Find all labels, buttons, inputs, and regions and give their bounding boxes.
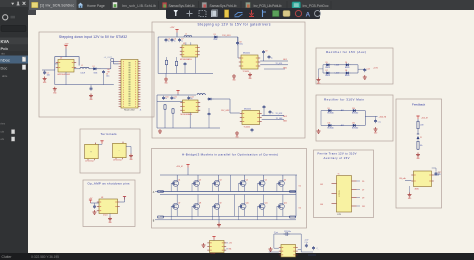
svg-text:C3: C3 bbox=[106, 73, 108, 75]
wire driver2 out2 bbox=[262, 119, 284, 121]
wire top cap rail bottom subckt bbox=[157, 94, 196, 96]
diode D1 bbox=[92, 68, 94, 70]
svg-text:MBRS: MBRS bbox=[345, 75, 350, 77]
wire fb opamp right bbox=[434, 174, 439, 176]
svg-text:Driver: Driver bbox=[103, 215, 108, 217]
op amp U8 bbox=[99, 199, 118, 214]
ground feedback opamp bbox=[409, 193, 411, 195]
toolbar icon move bbox=[187, 11, 193, 17]
wire power to terminal1 bbox=[97, 143, 102, 145]
wire driver out3 bbox=[264, 68, 285, 70]
mosfet Q1 bbox=[173, 180, 179, 186]
ground rect2 bbox=[375, 127, 377, 129]
wire terminal2 gnd bbox=[126, 146, 131, 148]
svg-text:Q11: Q11 bbox=[265, 203, 268, 205]
H-bridge right gate bus top bbox=[240, 191, 296, 193]
ground mid bbox=[90, 94, 92, 96]
svg-text:C22 100n: C22 100n bbox=[284, 231, 291, 233]
wire 12V feed top bbox=[176, 33, 178, 38]
inductor L1 bbox=[80, 67, 89, 69]
svg-text:-: - bbox=[119, 150, 120, 153]
svg-text:TC4420: TC4420 bbox=[244, 127, 250, 129]
projects panel background bbox=[0, 0, 28, 253]
driver IC U9 bottom left bbox=[210, 241, 225, 253]
wire opamp out bbox=[120, 201, 125, 203]
switcher U5 bbox=[183, 100, 199, 113]
svg-text:1u: 1u bbox=[174, 40, 176, 42]
ground terminals bbox=[130, 154, 132, 156]
ground opamp2 bbox=[109, 217, 111, 219]
wire left drop bbox=[273, 234, 275, 248]
svg-text:Doc: Doc bbox=[1, 67, 8, 71]
svg-text:els: els bbox=[1, 137, 5, 141]
svg-text:MBRS: MBRS bbox=[325, 75, 330, 77]
mosfet Q7 bbox=[173, 203, 179, 209]
ground rail left bbox=[54, 87, 56, 89]
svg-text:Driver: Driver bbox=[211, 253, 216, 255]
resistor R_fb2 bbox=[417, 141, 419, 149]
tab bar end separator bbox=[330, 1, 332, 9]
toolbar icon probe blue bbox=[263, 10, 267, 17]
svg-text:Stepping down input 12V to 5V: Stepping down input 12V to 5V for STM32 bbox=[59, 35, 127, 39]
svg-text:J1: J1 bbox=[140, 110, 142, 112]
power port feedback top bbox=[416, 115, 419, 117]
wire fb opamp left bbox=[405, 180, 411, 182]
mosfet Q5 bbox=[259, 180, 265, 186]
power port above U9 bbox=[212, 236, 215, 238]
wire gates bottom row bbox=[170, 206, 172, 220]
svg-text:D10: D10 bbox=[352, 108, 355, 110]
toolbar icon circle gray bbox=[315, 11, 321, 17]
wire bottom rail top subckt bbox=[158, 72, 213, 74]
ground bottom subckt bbox=[159, 129, 161, 131]
capacitor C12 bbox=[188, 96, 190, 98]
svg-text:KVA: KVA bbox=[1, 39, 10, 44]
wire regulator out bbox=[74, 68, 80, 70]
bottom rail box1 bbox=[55, 84, 114, 86]
svg-text:D1: D1 bbox=[93, 66, 95, 68]
mosfet Q11 bbox=[259, 203, 265, 209]
wire after diode bbox=[221, 36, 238, 38]
wire caps bottom rail 2 bbox=[157, 101, 196, 103]
capacitor rect1 out bbox=[358, 68, 365, 70]
wire into driver bbox=[237, 37, 239, 58]
ground right top bbox=[249, 73, 251, 75]
tab Inv_PCB.PcbDoc bbox=[286, 1, 288, 9]
svg-text:MC34063ADG: MC34063ADG bbox=[181, 113, 193, 116]
svg-text:C9: C9 bbox=[265, 51, 267, 53]
diode D11 bbox=[327, 124, 329, 126]
capacitor C11 bbox=[171, 96, 173, 98]
svg-text:+310_M: +310_M bbox=[176, 166, 183, 168]
capacitor above U10 a bbox=[284, 232, 290, 236]
mosfet Q3 bbox=[214, 180, 220, 186]
capacitor opamp input bbox=[94, 205, 96, 207]
svg-text:TO_GD2: TO_GD2 bbox=[276, 113, 283, 115]
capacitor fb right bbox=[435, 172, 437, 174]
svg-text:L2: L2 bbox=[185, 34, 187, 36]
toolbar icon wire blue bbox=[235, 13, 243, 17]
svg-text:MIC4420: MIC4420 bbox=[244, 108, 251, 110]
svg-text:Q6: Q6 bbox=[284, 180, 286, 182]
regulator U2 LM2576 bbox=[58, 60, 74, 73]
gate resistor top left bbox=[158, 191, 163, 193]
section box H-bridge bbox=[152, 149, 307, 229]
svg-text:Q1: Q1 bbox=[178, 180, 180, 182]
toolbar icon tan sheet entry bbox=[283, 11, 290, 17]
wire U9 right bbox=[226, 242, 228, 244]
svg-text:RE: RE bbox=[108, 72, 110, 74]
svg-text:D6: D6 bbox=[345, 62, 347, 64]
power port +12V input bbox=[64, 45, 67, 47]
svg-text:FB_mA: FB_mA bbox=[400, 177, 407, 180]
resistor divider left bbox=[165, 60, 167, 64]
svg-text:D7: D7 bbox=[362, 190, 364, 192]
svg-text:SS34: SS34 bbox=[213, 39, 217, 41]
panel search box bbox=[1, 26, 26, 32]
svg-text:Inv_PCB_LIb.PcbLib: Inv_PCB_LIb.PcbLib bbox=[254, 4, 282, 8]
capacitor C1 input bbox=[44, 71, 46, 73]
wire out cap down bbox=[103, 74, 105, 84]
svg-text:+310_M: +310_M bbox=[379, 117, 387, 119]
svg-text:4N35: 4N35 bbox=[415, 188, 419, 190]
capacitor mid bottom subckt bbox=[208, 112, 210, 114]
switcher U3 bbox=[182, 45, 198, 57]
capacitor rect2 out bbox=[375, 119, 377, 121]
diode D10 bbox=[352, 110, 354, 112]
wire to diode bbox=[207, 36, 214, 38]
wire gates top row bbox=[170, 183, 172, 191]
transformer pins left bbox=[332, 183, 337, 185]
svg-text:able: able bbox=[2, 74, 8, 78]
svg-text:U2: U2 bbox=[60, 58, 62, 60]
svg-text:J3 Terminal: J3 Terminal bbox=[113, 158, 122, 161]
ground left of U10 bbox=[270, 247, 272, 249]
svg-text:SamacSys.PcbLib: SamacSys.PcbLib bbox=[210, 4, 237, 8]
wire bottom rail 2 bbox=[157, 127, 220, 129]
svg-text:Q8: Q8 bbox=[199, 203, 201, 205]
svg-text:+310_M: +310_M bbox=[421, 117, 428, 119]
svg-text:Rectifier for 15V (Aux): Rectifier for 15V (Aux) bbox=[326, 50, 366, 54]
toolbar icon selection rect bbox=[199, 11, 206, 17]
wire regulator left pin bbox=[55, 63, 58, 65]
svg-text:1u: 1u bbox=[168, 40, 170, 42]
status bar bbox=[0, 253, 474, 260]
svg-text:nts: nts bbox=[1, 51, 5, 55]
floating active toolbar bbox=[166, 8, 320, 19]
svg-text:hDoc: hDoc bbox=[1, 58, 10, 63]
capacitor C8 output top bbox=[237, 41, 239, 43]
toolbar icon yellow part bbox=[225, 10, 229, 18]
capacitor C10 bbox=[163, 96, 165, 98]
gate resistor bottom left bbox=[158, 216, 163, 218]
svg-text:cts: cts bbox=[1, 130, 5, 134]
power port opamp bbox=[89, 199, 92, 201]
wire driver out bbox=[260, 60, 288, 62]
svg-text:D9: D9 bbox=[362, 198, 364, 200]
svg-text:C11: C11 bbox=[174, 96, 177, 98]
H-bridge right gate bus bottom bbox=[240, 219, 296, 221]
active tab Inv_SCN.SchDoc bbox=[29, 0, 77, 10]
svg-text:U8: U8 bbox=[101, 197, 103, 199]
svg-text:Inv_PCB.PcbDoc: Inv_PCB.PcbDoc bbox=[303, 4, 329, 8]
H-bridge mid rail left bbox=[160, 191, 296, 193]
wire sources bottom row bbox=[176, 209, 178, 216]
wire drains top row bbox=[176, 175, 178, 181]
svg-text:+15V: +15V bbox=[373, 68, 379, 70]
diode zener fb bbox=[417, 133, 419, 135]
svg-text:10k: 10k bbox=[420, 145, 423, 147]
svg-text:Q10: Q10 bbox=[246, 203, 249, 205]
toolbar icon cursor bbox=[174, 10, 179, 16]
svg-text:Inv_sch_LIB.SchLib: Inv_sch_LIB.SchLib bbox=[122, 4, 156, 8]
svg-text:1u: 1u bbox=[174, 98, 176, 100]
power port opamp out bbox=[123, 196, 126, 198]
diode D8 bbox=[345, 72, 347, 74]
svg-text:[1] Inv_SCN.SchDoc: [1] Inv_SCN.SchDoc bbox=[40, 4, 74, 8]
svg-text:Q7: Q7 bbox=[178, 203, 180, 205]
svg-text:Q4: Q4 bbox=[246, 180, 248, 182]
wire sources top row bbox=[176, 186, 178, 191]
capacitor C7 bbox=[179, 38, 181, 40]
section box feedback bbox=[396, 99, 442, 208]
tab SamacSys.PcbLib bbox=[198, 1, 200, 9]
mosfet Q6 bbox=[278, 180, 284, 186]
svg-text:1u: 1u bbox=[271, 57, 273, 59]
wire switch to driver 2 bbox=[214, 98, 230, 100]
wire drains bottom row bbox=[176, 195, 178, 204]
svg-text:SamacSys.SchLib: SamacSys.SchLib bbox=[169, 4, 195, 8]
wire res to ic bbox=[166, 57, 168, 60]
svg-text:D5: D5 bbox=[362, 181, 364, 183]
wire to out cap bbox=[101, 68, 111, 70]
H-bridge top rail bbox=[160, 174, 297, 176]
svg-text:O2: O2 bbox=[299, 207, 302, 209]
tab Inv_PCB_Lib.PcbLib bbox=[240, 1, 242, 9]
section box terminals bbox=[80, 129, 140, 173]
resistor R_fb1 bbox=[417, 121, 419, 128]
inductor L3 bbox=[197, 94, 205, 95]
connector center net names bbox=[129, 62, 131, 106]
ground input cap bbox=[44, 77, 46, 79]
svg-text:TC4420: TC4420 bbox=[243, 71, 249, 73]
mosfet Q9 bbox=[214, 203, 220, 209]
terminal J2 bottom stubs bbox=[87, 159, 89, 161]
svg-text:Stepping up 12V to 15V for gat: Stepping up 12V to 15V for gatedrivers bbox=[198, 23, 271, 27]
section box rectifier 15V aux bbox=[316, 48, 393, 84]
svg-text:C 1u: C 1u bbox=[378, 122, 381, 124]
diode D5 bbox=[325, 64, 327, 66]
wire left bus bottom subckt bbox=[156, 95, 158, 128]
svg-text:GB2: GB2 bbox=[283, 121, 287, 123]
svg-text:C12: C12 bbox=[191, 96, 194, 98]
wire top cap rail bbox=[158, 36, 206, 38]
gate resistor bottom right bbox=[290, 216, 295, 218]
svg-text:ETD39: ETD39 bbox=[339, 189, 341, 196]
svg-text:C_: C_ bbox=[317, 248, 319, 250]
wire driver2 out bbox=[262, 114, 284, 116]
wire center drop bottom bbox=[234, 195, 236, 217]
tab Inv_sch_LIB.SchLib bbox=[110, 1, 112, 9]
wire right column bbox=[295, 175, 297, 216]
ground rect1 left bbox=[318, 78, 320, 80]
mosfet Q2 bbox=[193, 180, 199, 186]
wire opamp in bbox=[91, 202, 100, 204]
small cluster bottom right caps bbox=[313, 246, 315, 248]
svg-text:O1: O1 bbox=[299, 185, 302, 187]
wire rect2 row2 bbox=[321, 124, 327, 126]
gate driver U4 bbox=[241, 55, 258, 69]
diode D4 bbox=[207, 98, 209, 100]
svg-text:Q9: Q9 bbox=[219, 203, 221, 205]
svg-text:1u: 1u bbox=[272, 112, 274, 114]
svg-text:SS36: SS36 bbox=[94, 73, 98, 75]
svg-text:GD1: GD1 bbox=[283, 59, 287, 61]
svg-text:C1: C1 bbox=[47, 73, 49, 75]
document tab bar bbox=[28, 0, 474, 10]
ground driver top bbox=[233, 74, 235, 76]
toolbar icon power port red bbox=[249, 10, 254, 17]
diode D7 bbox=[325, 72, 327, 74]
toolbar icon sheet bbox=[211, 11, 217, 18]
svg-text:D12: D12 bbox=[352, 123, 355, 125]
H-bridge mid rail 2 bbox=[160, 194, 296, 196]
svg-text:Terminals: Terminals bbox=[101, 132, 118, 136]
wire U10 right bbox=[298, 249, 302, 251]
svg-text:D8: D8 bbox=[345, 70, 347, 72]
wire to label bbox=[365, 67, 372, 69]
wire input cap branch bbox=[42, 69, 55, 71]
capacitor under driver2 bbox=[251, 128, 253, 130]
svg-text:GD2: GD2 bbox=[283, 116, 287, 118]
section box rectifier 310V main bbox=[316, 95, 393, 141]
svg-text:D9: D9 bbox=[328, 108, 330, 110]
svg-text:A: A bbox=[306, 11, 311, 18]
section box stepping up 12V to 15V bbox=[152, 22, 305, 138]
svg-text:Header 20X2: Header 20X2 bbox=[124, 110, 135, 112]
svg-text:U3: U3 bbox=[183, 43, 185, 45]
capacitor byp3 bbox=[263, 105, 265, 107]
capacitor C5 bbox=[165, 38, 167, 40]
svg-text:+12V: +12V bbox=[64, 44, 69, 46]
connector J1 STM32 header bbox=[121, 60, 138, 109]
svg-text:MUR460: MUR460 bbox=[352, 113, 358, 115]
ground left of U9 bbox=[203, 243, 205, 245]
wire rect1 row2 bbox=[323, 72, 325, 74]
svg-text:Feedback: Feedback bbox=[412, 102, 426, 106]
svg-text:MUR460: MUR460 bbox=[327, 128, 333, 130]
svg-text:J06: J06 bbox=[320, 204, 323, 206]
project tree row Inv.PrjPcb bbox=[0, 38, 28, 45]
svg-text:100u: 100u bbox=[106, 75, 110, 77]
wire fb node bbox=[417, 130, 419, 135]
svg-text:Auxiliary of 15V: Auxiliary of 15V bbox=[324, 156, 350, 160]
svg-text:X:322.580 Y:36.195: X:322.580 Y:36.195 bbox=[31, 255, 59, 259]
wire rect1 row1 bbox=[323, 64, 325, 66]
svg-text:Clutter: Clutter bbox=[2, 255, 13, 259]
diode D9 bbox=[327, 110, 329, 112]
svg-text:T1: T1 bbox=[338, 174, 340, 176]
ground rect1 bbox=[364, 75, 366, 77]
power port H-bridge bbox=[186, 164, 189, 166]
svg-text:C8: C8 bbox=[239, 42, 241, 44]
capacitor driver byp2 bbox=[268, 55, 270, 57]
inductor L2 bbox=[184, 35, 192, 36]
tab shadow notch bbox=[28, 10, 36, 15]
svg-text:D7: D7 bbox=[326, 70, 328, 72]
svg-text:GB1: GB1 bbox=[283, 68, 287, 70]
power port 12V top subckt bbox=[175, 29, 178, 31]
svg-text:Q5: Q5 bbox=[265, 180, 267, 182]
svg-text:C10: C10 bbox=[165, 96, 168, 98]
svg-text:100uH: 100uH bbox=[81, 73, 85, 75]
svg-text:H-Bridge(3 Mosfets in parallel: H-Bridge(3 Mosfets in parallel for Optim… bbox=[182, 153, 278, 157]
capacitor C4 mid bbox=[90, 85, 92, 87]
svg-text:+12V: +12V bbox=[170, 27, 175, 29]
svg-text:D11: D11 bbox=[328, 123, 331, 125]
ground opamp input bbox=[94, 210, 96, 212]
svg-text:C7: C7 bbox=[181, 39, 183, 41]
wire right drop bbox=[300, 234, 302, 252]
svg-text:MUR460: MUR460 bbox=[352, 128, 358, 130]
svg-text:1u: 1u bbox=[165, 98, 167, 100]
wire IC top drops bbox=[185, 42, 187, 45]
svg-text:+5_OUT: +5_OUT bbox=[104, 57, 113, 59]
mosfet Q12 bbox=[278, 203, 284, 209]
toolbar icon green sheet symbol bbox=[273, 11, 280, 17]
panel header buttons bbox=[11, 2, 25, 6]
svg-text:D11: D11 bbox=[362, 206, 365, 208]
wire after inductor bbox=[89, 68, 92, 70]
wire 5V up to header bbox=[103, 65, 105, 69]
H-bridge left gate bus A bbox=[155, 191, 240, 193]
mosfet Q4 bbox=[240, 180, 246, 186]
wire gnd stub bbox=[165, 73, 167, 77]
svg-text:15V_GD2: 15V_GD2 bbox=[221, 110, 229, 112]
svg-text:L1: L1 bbox=[81, 65, 83, 67]
svg-text:Rectifier for 310V Main: Rectifier for 310V Main bbox=[324, 98, 364, 102]
connector pin numbers red columns bbox=[122, 61, 124, 107]
section box stepping down 12V to 5V bbox=[39, 32, 154, 117]
svg-text:MBRS: MBRS bbox=[345, 67, 350, 69]
svg-text:100u: 100u bbox=[239, 43, 243, 45]
capacitor C3 output bbox=[103, 70, 105, 72]
capacitor byp4 bbox=[269, 110, 271, 112]
wire rect1 left stub bbox=[318, 69, 320, 78]
power port terminals bbox=[100, 140, 103, 142]
mosfet Q10 bbox=[240, 203, 246, 209]
wire fb chain bbox=[417, 119, 419, 122]
svg-text:J2 Terminal: J2 Terminal bbox=[85, 159, 94, 162]
svg-text:C13: C13 bbox=[367, 69, 370, 71]
svg-text:Q3: Q3 bbox=[219, 180, 221, 182]
terminal J3 bottom stubs bbox=[115, 158, 117, 160]
selected tree row Inv_SCN.SchDoc bbox=[0, 56, 28, 64]
svg-text:C5: C5 bbox=[168, 39, 170, 41]
ground driver bottom bbox=[236, 131, 238, 133]
project tree row 2 bbox=[0, 45, 28, 51]
resistor divider left 2 bbox=[164, 105, 166, 109]
wire driver out2 bbox=[260, 64, 288, 66]
svg-text:Pcb: Pcb bbox=[1, 46, 9, 51]
svg-text:C6: C6 bbox=[174, 39, 176, 41]
wire U10 left pins bbox=[274, 247, 279, 249]
wire rect2 left stub bbox=[320, 111, 322, 126]
capacitor timing bbox=[184, 62, 186, 64]
power port 12V bottom subckt bbox=[176, 90, 179, 92]
wire center drop top bbox=[230, 175, 232, 192]
svg-text:Z1: Z1 bbox=[420, 137, 422, 139]
